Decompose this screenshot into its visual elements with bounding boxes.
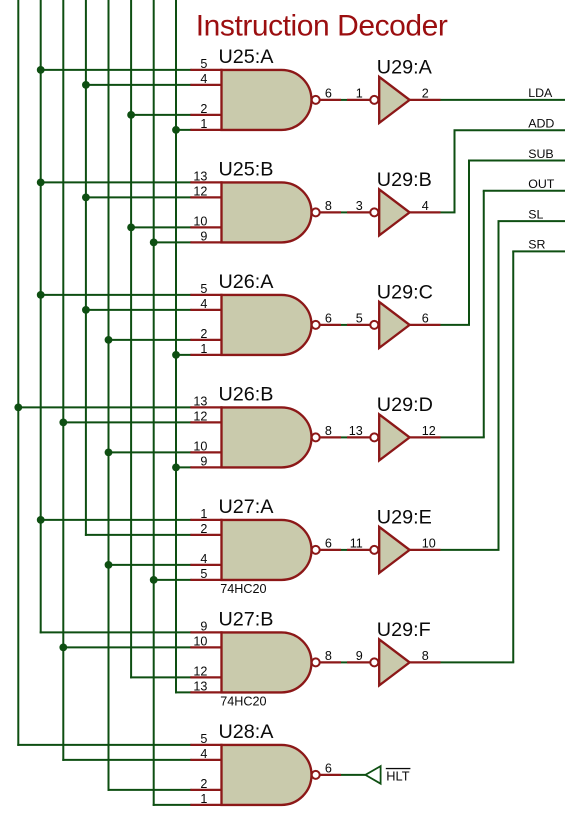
svg-text:9: 9 [200, 454, 207, 468]
junction U26:B pin 9 [172, 464, 180, 472]
wire U25:B pin 13 feed [40, 181, 192, 183]
input bubble of U29:E [370, 546, 378, 554]
svg-text:8: 8 [422, 649, 429, 663]
input bubble of U29:C [370, 321, 378, 329]
svg-text:U26:A: U26:A [219, 271, 275, 293]
wire U26:A pin 4 feed [85, 309, 192, 311]
output pin stub U29:C pin 6 [410, 324, 441, 326]
wire U29:F output to net SR horizontal [441, 661, 515, 663]
wire bus V7 [153, 0, 155, 806]
junction U27:A pin 5 [150, 576, 158, 584]
svg-text:8: 8 [325, 199, 332, 213]
junction U27:A pin 1 [37, 516, 45, 524]
NAND gate U27:A body [222, 520, 312, 580]
net label HLT overline [386, 768, 411, 769]
svg-text:2: 2 [200, 327, 207, 341]
pin stub U28:A pin 5 [190, 744, 222, 746]
svg-text:5: 5 [200, 732, 207, 746]
wire U27:A pin 2 feed [85, 534, 192, 536]
wire U28:A pin 5 feed [17, 744, 191, 746]
pin stub U25:A pin 2 [190, 114, 222, 116]
wire U27:B output to U29:F input [341, 661, 347, 663]
wire U26:B pin 9 feed [175, 466, 192, 468]
junction U25:B pin 13 [37, 179, 45, 187]
wire U26:B output to U29:D input [341, 436, 347, 438]
junction U26:B pin 10 [105, 449, 113, 457]
wire U25:A pin 5 feed [40, 69, 192, 71]
output bubble of U26:B [312, 433, 320, 441]
svg-text:OUT: OUT [528, 177, 555, 191]
svg-text:U29:C: U29:C [377, 282, 433, 304]
pin stub U27:B pin 9 [190, 631, 222, 633]
wire U28:A pin 4 feed [62, 759, 191, 761]
output bubble of U25:A [312, 96, 320, 104]
svg-text:3: 3 [356, 199, 363, 213]
junction U25:B pin 9 [150, 239, 158, 247]
svg-text:12: 12 [193, 184, 207, 198]
output bubble of U25:B [312, 208, 320, 216]
pin stub U27:A pin 4 [190, 564, 222, 566]
output pin stub U29:B pin 4 [410, 211, 441, 213]
svg-text:U27:B: U27:B [219, 609, 274, 631]
wire U29:E output to net SL horizontal [441, 549, 500, 551]
svg-text:SL: SL [528, 207, 543, 221]
pin stub U27:B pin 10 [190, 646, 222, 648]
wire U29:C output to net SUB horizontal [441, 324, 471, 326]
svg-text:74HC20: 74HC20 [220, 582, 266, 596]
wire U26:B pin 10 feed [108, 451, 192, 453]
input bubble of U29:B [370, 208, 378, 216]
pin stub U28:A pin 4 [190, 759, 222, 761]
wire U25:B pin 12 feed [85, 196, 192, 198]
pin stub U27:B pin 13 [190, 691, 222, 693]
wire U27:A output to U29:E input [341, 549, 347, 551]
output pin stub U25:B pin 8 [320, 211, 341, 213]
junction U25:A pin 1 [172, 126, 180, 134]
input pin stub U29:A pin 1 [347, 99, 370, 101]
NAND gate U27:B body [222, 632, 312, 692]
svg-text:U25:A: U25:A [219, 46, 275, 68]
input pin stub U29:E pin 11 [347, 549, 370, 551]
wire U27:A pin 5 feed [153, 579, 192, 581]
svg-text:U29:D: U29:D [377, 394, 433, 416]
wire bus V8 [175, 0, 177, 693]
pin stub U27:A pin 1 [190, 519, 222, 521]
svg-text:U28:A: U28:A [219, 721, 275, 743]
svg-text:1: 1 [200, 117, 207, 131]
svg-text:Instruction Decoder: Instruction Decoder [196, 9, 448, 42]
svg-text:U29:B: U29:B [377, 169, 432, 191]
svg-text:HLT: HLT [386, 769, 409, 784]
wire U27:A pin 1 feed [40, 519, 192, 521]
svg-text:10: 10 [193, 439, 207, 453]
svg-text:U27:A: U27:A [219, 496, 275, 518]
svg-text:5: 5 [200, 57, 207, 71]
pin stub U25:B pin 13 [190, 181, 222, 183]
output bubble of U27:A [312, 546, 320, 554]
junction U26:A pin 1 [172, 351, 180, 359]
svg-text:12: 12 [193, 664, 207, 678]
wire U27:B pin 9 feed [40, 631, 192, 633]
junction U26:A pin 5 [37, 291, 45, 299]
pin stub U27:A pin 2 [190, 534, 222, 536]
svg-text:2: 2 [200, 522, 207, 536]
wire net LDA [441, 99, 565, 101]
svg-text:1: 1 [200, 507, 207, 521]
terminal HLT symbol [365, 766, 380, 784]
svg-text:4: 4 [200, 552, 207, 566]
svg-text:4: 4 [200, 747, 207, 761]
NAND gate U28:A body [222, 745, 312, 805]
output pin stub U29:D pin 12 [410, 436, 441, 438]
svg-text:10: 10 [193, 634, 207, 648]
svg-text:8: 8 [325, 424, 332, 438]
input pin stub U29:D pin 13 [347, 436, 370, 438]
svg-text:2: 2 [200, 777, 207, 791]
pin stub U26:A pin 4 [190, 309, 222, 311]
wire U27:B pin 10 feed [62, 646, 191, 648]
svg-text:9: 9 [200, 619, 207, 633]
wire U28:A pin 1 feed [153, 804, 192, 806]
junction U25:B pin 10 [127, 224, 135, 232]
pin stub U27:A pin 5 [190, 579, 222, 581]
input pin stub U29:F pin 9 [347, 661, 370, 663]
wire U26:A output to U29:C input [341, 324, 347, 326]
wire U26:A pin 5 feed [40, 294, 192, 296]
wire net SR vertical [512, 251, 514, 662]
output pin stub U29:F pin 8 [410, 661, 441, 663]
svg-text:5: 5 [200, 282, 207, 296]
inverter U29:F body [379, 639, 409, 685]
svg-text:4: 4 [200, 297, 207, 311]
wire bus V1 [17, 0, 19, 746]
svg-text:5: 5 [200, 567, 207, 581]
pin stub U25:B pin 10 [190, 226, 222, 228]
svg-text:LDA: LDA [528, 86, 553, 100]
wire U25:B pin 10 feed [130, 226, 191, 228]
svg-text:2: 2 [200, 102, 207, 116]
svg-text:13: 13 [193, 679, 207, 693]
svg-text:1: 1 [356, 87, 363, 101]
wire net ADD vertical [454, 130, 456, 212]
wire U29:B output to net ADD horizontal [441, 211, 456, 213]
svg-text:SR: SR [528, 238, 545, 252]
output pin stub U26:B pin 8 [320, 436, 341, 438]
junction U26:A pin 2 [105, 336, 113, 344]
wire net SL to edge [498, 220, 565, 222]
junction U27:A pin 4 [105, 561, 113, 569]
wire bus V2 [40, 0, 42, 633]
junction U27:B pin 10 [59, 644, 67, 652]
junction U25:A pin 4 [82, 81, 90, 89]
junction U26:B pin 13 [14, 404, 22, 412]
junction U26:B pin 12 [59, 419, 67, 427]
svg-text:SUB: SUB [528, 147, 553, 161]
wire U25:A pin 4 feed [85, 84, 192, 86]
wire net SUB vertical [468, 161, 470, 325]
svg-text:6: 6 [325, 762, 332, 776]
junction U26:A pin 4 [82, 306, 90, 314]
pin stub U27:B pin 12 [190, 676, 222, 678]
svg-text:5: 5 [356, 312, 363, 326]
output pin stub U29:E pin 10 [410, 549, 441, 551]
pin stub U25:A pin 1 [190, 129, 222, 131]
NAND gate U25:A body [222, 70, 312, 130]
pin stub U25:B pin 12 [190, 196, 222, 198]
inverter U29:A body [379, 77, 409, 123]
wire net OUT to edge [483, 190, 565, 192]
wire U26:A pin 2 feed [108, 339, 192, 341]
wire U25:B pin 9 feed [153, 241, 192, 243]
NAND gate U26:A body [222, 295, 312, 355]
pin stub U26:B pin 9 [190, 466, 222, 468]
svg-text:6: 6 [325, 87, 332, 101]
wire U25:A pin 2 feed [130, 114, 191, 116]
wire U26:A pin 1 feed [175, 354, 192, 356]
svg-text:U29:A: U29:A [377, 57, 433, 79]
wire U29:D output to net OUT horizontal [441, 436, 485, 438]
pin stub U26:A pin 1 [190, 354, 222, 356]
svg-text:U29:E: U29:E [377, 507, 432, 529]
svg-text:U26:B: U26:B [219, 384, 274, 406]
svg-text:9: 9 [200, 229, 207, 243]
pin stub U28:A pin 2 [190, 789, 222, 791]
input pin stub U29:B pin 3 [347, 211, 370, 213]
svg-text:6: 6 [325, 537, 332, 551]
pin stub U26:B pin 12 [190, 421, 222, 423]
svg-text:1: 1 [200, 342, 207, 356]
svg-text:4: 4 [200, 72, 207, 86]
wire U26:B pin 13 feed [17, 406, 191, 408]
pin stub U28:A pin 1 [190, 804, 222, 806]
svg-text:1: 1 [200, 792, 207, 806]
svg-text:U29:F: U29:F [377, 619, 431, 641]
input bubble of U29:A [370, 96, 378, 104]
output bubble of U28:A [312, 771, 320, 779]
inverter U29:D body [379, 414, 409, 460]
svg-text:12: 12 [422, 424, 436, 438]
output bubble of U26:A [312, 321, 320, 329]
wire U28:A output to HLT terminal [341, 774, 365, 776]
wire U27:B pin 13 feed [175, 691, 192, 693]
wire U27:B pin 12 feed [130, 676, 191, 678]
inverter U29:C body [379, 302, 409, 348]
output pin stub U27:B pin 8 [320, 661, 341, 663]
inverter U29:E body [379, 527, 409, 573]
output pin stub U26:A pin 6 [320, 324, 341, 326]
wire net ADD to edge [454, 129, 565, 131]
output bubble of U27:B [312, 658, 320, 666]
svg-text:6: 6 [422, 312, 429, 326]
pin stub U26:A pin 2 [190, 339, 222, 341]
wire net SUB to edge [468, 160, 565, 162]
svg-text:10: 10 [422, 537, 436, 551]
svg-text:6: 6 [325, 312, 332, 326]
wire U27:A pin 4 feed [108, 564, 192, 566]
wire net SL vertical [498, 221, 500, 550]
svg-text:12: 12 [193, 409, 207, 423]
svg-text:ADD: ADD [528, 117, 554, 131]
svg-text:74HC20: 74HC20 [220, 695, 266, 709]
svg-text:2: 2 [422, 87, 429, 101]
wire bus V6 [130, 0, 132, 678]
output pin stub U25:A pin 6 [320, 99, 341, 101]
wire net OUT vertical [483, 191, 485, 438]
junction U25:A pin 2 [127, 111, 135, 119]
pin stub U25:A pin 4 [190, 84, 222, 86]
wire net SR to edge [512, 250, 565, 252]
inverter U29:B body [379, 189, 409, 235]
svg-text:8: 8 [325, 649, 332, 663]
NAND gate U26:B body [222, 407, 312, 467]
NAND gate U25:B body [222, 182, 312, 242]
wire bus V3 [62, 0, 64, 761]
svg-text:9: 9 [356, 649, 363, 663]
svg-text:13: 13 [193, 169, 207, 183]
svg-text:10: 10 [193, 214, 207, 228]
output pin stub U27:A pin 6 [320, 549, 341, 551]
wire U25:A pin 1 feed [175, 129, 192, 131]
wire U26:B pin 12 feed [62, 421, 191, 423]
svg-text:11: 11 [350, 537, 363, 551]
input bubble of U29:D [370, 433, 378, 441]
svg-text:4: 4 [422, 199, 429, 213]
wire bus V4 [85, 0, 87, 536]
wire U28:A pin 2 feed [108, 789, 192, 791]
pin stub U25:A pin 5 [190, 69, 222, 71]
junction U25:B pin 12 [82, 194, 90, 202]
junction U25:A pin 5 [37, 66, 45, 74]
output pin stub U29:A pin 2 [410, 99, 441, 101]
input pin stub U29:C pin 5 [347, 324, 370, 326]
svg-text:U25:B: U25:B [219, 159, 274, 181]
wire U25:B output to U29:B input [341, 211, 347, 213]
wire U25:A output to U29:A input [341, 99, 347, 101]
pin stub U25:B pin 9 [190, 241, 222, 243]
output pin stub U28:A pin 6 [320, 774, 341, 776]
wire bus V5 [108, 0, 110, 791]
pin stub U26:B pin 10 [190, 451, 222, 453]
svg-text:13: 13 [349, 424, 363, 438]
pin stub U26:A pin 5 [190, 294, 222, 296]
input bubble of U29:F [370, 658, 378, 666]
svg-text:13: 13 [193, 394, 207, 408]
pin stub U26:B pin 13 [190, 406, 222, 408]
